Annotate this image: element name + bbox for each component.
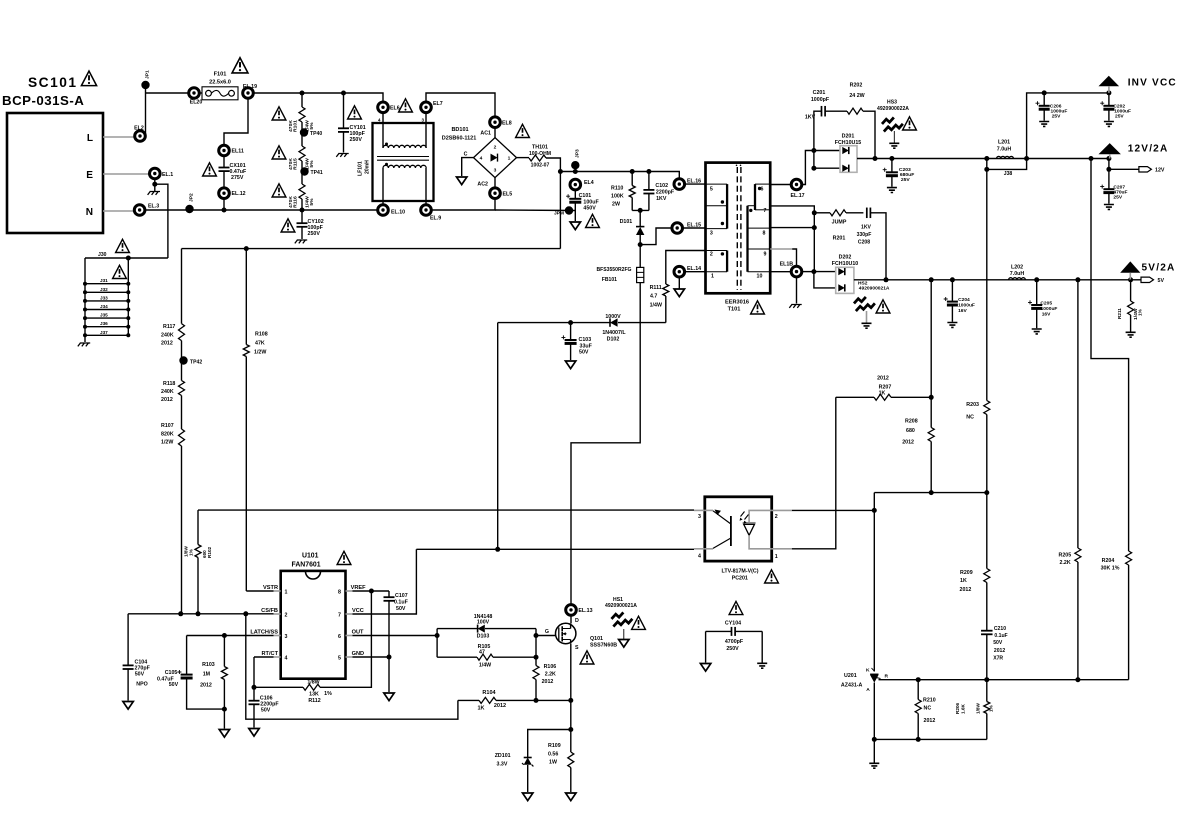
output arrow 5V/2A <box>1120 261 1140 272</box>
svg-text:BCP-031S-A: BCP-031S-A <box>2 93 84 108</box>
warning symbol Q101 <box>580 651 594 664</box>
PC201 phototransistor <box>705 509 713 511</box>
svg-text:C: C <box>464 152 468 158</box>
svg-text:10: 10 <box>757 274 763 280</box>
capacitor C101 <box>574 190 576 199</box>
svg-text:2012: 2012 <box>902 440 914 446</box>
transformer T101 EER3016 body <box>706 163 771 294</box>
svg-text:1/4W: 1/4W <box>479 663 491 669</box>
IC U101 FAN7601 body <box>281 571 346 679</box>
warning symbol CY101 <box>348 106 362 119</box>
svg-text:1%: 1% <box>324 691 332 697</box>
svg-text:OUT: OUT <box>352 630 364 636</box>
svg-text:K: K <box>866 668 870 674</box>
svg-text:5%: 5% <box>309 160 315 168</box>
svg-text:4920900021A: 4920900021A <box>605 603 637 609</box>
svg-text:D101: D101 <box>620 219 633 225</box>
warning symbol PC201 <box>765 570 779 583</box>
ground CY104 left <box>705 631 707 662</box>
wire PC201 pin3 to R102 <box>198 509 694 511</box>
terminal EL15 <box>672 223 683 234</box>
svg-text:EL.17: EL.17 <box>791 193 805 199</box>
terminal EL12 <box>219 188 230 199</box>
svg-text:J37: J37 <box>100 330 108 335</box>
wire U201 reference bus <box>879 679 1129 681</box>
svg-text:CY104: CY104 <box>725 621 741 627</box>
svg-text:24 2W: 24 2W <box>849 93 864 99</box>
wire D201 output <box>857 158 875 160</box>
svg-text:3: 3 <box>698 514 701 520</box>
svg-text:EL2: EL2 <box>134 126 144 132</box>
capacitor C103 <box>570 323 572 340</box>
svg-text:X7R: X7R <box>993 656 1003 662</box>
svg-text:820K: 820K <box>161 432 174 438</box>
svg-text:R108: R108 <box>255 332 268 338</box>
svg-text:680: 680 <box>906 428 915 434</box>
jumper J35 <box>85 317 128 319</box>
svg-text:100K: 100K <box>611 194 624 200</box>
svg-text:FCH10U15: FCH10U15 <box>835 140 862 146</box>
svg-text:HS3: HS3 <box>887 100 897 106</box>
svg-text:22.5x6.0: 22.5x6.0 <box>209 80 231 86</box>
svg-text:FAN7601: FAN7601 <box>292 562 321 569</box>
svg-text:JUMP: JUMP <box>832 220 847 226</box>
svg-text:R209: R209 <box>960 570 973 576</box>
wire D101 to EL15 <box>640 228 672 245</box>
svg-text:0.56: 0.56 <box>548 752 558 758</box>
resistor R211 <box>1130 280 1132 301</box>
wire VREF net <box>353 590 390 592</box>
test point TP40 <box>301 122 303 146</box>
svg-text:VCC: VCC <box>352 608 364 614</box>
svg-text:100V: 100V <box>477 620 490 626</box>
svg-text:EL.3: EL.3 <box>148 204 159 210</box>
jumper J38 <box>987 159 1027 170</box>
resistor R209 <box>986 493 988 569</box>
wire pin6 to EL17 <box>770 184 791 186</box>
svg-text:JP1: JP1 <box>145 70 151 79</box>
wire aux winding to D102 <box>666 251 706 285</box>
svg-text:100-OHM: 100-OHM <box>529 151 551 157</box>
svg-text:TP41: TP41 <box>311 170 323 176</box>
resistor R112 <box>254 686 303 688</box>
svg-text:1%: 1% <box>189 548 194 556</box>
heatsink HS2 <box>854 297 875 311</box>
warning symbol U101 <box>337 551 351 564</box>
svg-text:1KV: 1KV <box>861 225 871 231</box>
wire 12V rail <box>875 158 1109 160</box>
capacitor C104 <box>127 614 129 666</box>
svg-text:250V: 250V <box>726 646 739 652</box>
svg-text:C103: C103 <box>579 337 592 343</box>
wire 12V to R203 column <box>986 169 988 400</box>
svg-text:2012: 2012 <box>542 679 554 685</box>
svg-text:JP3: JP3 <box>575 149 581 158</box>
svg-text:4.7: 4.7 <box>650 294 657 300</box>
jumper rails J31-J37 <box>84 258 86 335</box>
wire E to EL1 (gray) <box>103 173 150 175</box>
svg-text:C205: C205 <box>1040 301 1052 307</box>
svg-text:EL.9: EL.9 <box>430 216 441 222</box>
warning symbol CY104 <box>729 601 743 614</box>
resistor R118 <box>179 381 185 396</box>
resistor R103 <box>223 636 225 667</box>
svg-text:J34: J34 <box>100 304 108 309</box>
svg-text:T101: T101 <box>728 307 741 313</box>
wire HV bus <box>182 248 561 250</box>
svg-text:EL6: EL6 <box>390 106 400 112</box>
ferrite bead FB101 <box>639 245 641 268</box>
wire pin9 to EL18 (gray) <box>770 248 792 250</box>
svg-text:240K: 240K <box>161 389 174 395</box>
warning symbol EL6 <box>399 99 413 112</box>
transformer primary winding 5-3 <box>726 184 728 229</box>
svg-text:2: 2 <box>285 613 288 619</box>
line filter LF101 body <box>373 123 434 201</box>
wire EL14 to pin1 <box>684 271 705 273</box>
capacitor CY101 <box>343 93 345 128</box>
warning symbol CX101 <box>203 163 217 176</box>
terminal EL13 <box>570 615 572 623</box>
wire GND net <box>353 656 390 658</box>
svg-text:D201: D201 <box>842 134 855 140</box>
resistor R102 <box>197 510 199 544</box>
svg-text:330pF: 330pF <box>857 232 872 238</box>
wire PC201 pin2 to U201 K <box>792 509 874 511</box>
svg-text:2.2K: 2.2K <box>545 672 556 678</box>
diode D103 <box>437 628 478 630</box>
svg-text:2012: 2012 <box>200 683 212 689</box>
svg-text:1KV: 1KV <box>656 196 667 202</box>
wire EL15 to pin3 <box>682 227 705 229</box>
diode D201 FCH10U15 <box>840 146 857 173</box>
svg-text:R106: R106 <box>544 664 557 670</box>
svg-text:3: 3 <box>285 634 288 640</box>
ground below R109 <box>566 793 576 801</box>
svg-text:470K: 470K <box>288 158 294 170</box>
svg-text:5V/2A: 5V/2A <box>1142 263 1176 274</box>
svg-text:25V: 25V <box>1115 114 1124 120</box>
svg-text:INV VCC: INV VCC <box>1128 78 1177 89</box>
chassis ground below EL1 <box>154 184 156 191</box>
ground below R103 <box>219 730 229 738</box>
svg-text:7: 7 <box>338 613 341 619</box>
resistor R116 <box>299 184 305 199</box>
svg-text:R117: R117 <box>163 324 175 330</box>
svg-text:2012: 2012 <box>161 397 173 403</box>
svg-text:3.3V: 3.3V <box>497 762 508 768</box>
svg-text:R208: R208 <box>905 419 918 425</box>
svg-text:ZD101: ZD101 <box>495 753 511 759</box>
svg-text:1: 1 <box>508 156 511 162</box>
svg-text:2: 2 <box>775 514 778 520</box>
svg-text:R206: R206 <box>955 702 960 714</box>
svg-text:D102: D102 <box>607 337 620 343</box>
svg-text:250V: 250V <box>308 231 321 237</box>
resistor R107 <box>181 396 183 430</box>
wire 5V to R207/R208 column <box>930 280 932 398</box>
LF101 bottom winding <box>382 168 384 205</box>
wire EL8 to AC1 <box>494 127 496 137</box>
svg-text:4920900022A: 4920900022A <box>877 106 909 112</box>
svg-text:50V: 50V <box>396 606 406 612</box>
svg-text:R112: R112 <box>308 698 320 704</box>
connector plug 5V <box>1141 277 1154 282</box>
svg-text:8: 8 <box>763 231 766 237</box>
svg-text:RT/CT: RT/CT <box>261 651 278 657</box>
svg-text:1000V: 1000V <box>605 314 621 320</box>
capacitor C202 <box>1108 93 1110 106</box>
svg-text:R103: R103 <box>202 662 215 668</box>
svg-text:L: L <box>87 133 93 144</box>
resistor R207 <box>836 396 874 398</box>
jumper JP3 <box>571 161 579 169</box>
wire opto anode bus <box>874 492 987 494</box>
svg-text:R107: R107 <box>161 423 174 429</box>
transformer secondary winding 8-9-10 <box>746 206 748 272</box>
terminal EL3 <box>134 205 145 216</box>
svg-text:EL8: EL8 <box>502 121 512 127</box>
wire N bus <box>145 209 378 211</box>
wire PC201 pin1 to R207 <box>792 397 836 549</box>
ground below C103 <box>565 361 575 369</box>
svg-text:TP42: TP42 <box>190 360 202 366</box>
svg-text:3: 3 <box>422 118 425 123</box>
svg-text:EL11: EL11 <box>232 149 244 155</box>
svg-text:7.0uH: 7.0uH <box>997 147 1012 153</box>
svg-text:EL.19: EL.19 <box>243 84 257 90</box>
capacitor C204 <box>951 280 953 302</box>
svg-text:1N4007/L: 1N4007/L <box>602 330 626 336</box>
capacitor C102 <box>648 172 650 190</box>
svg-text:EL.13: EL.13 <box>578 608 592 614</box>
svg-text:1K: 1K <box>477 706 484 712</box>
svg-text:450V: 450V <box>583 206 596 212</box>
svg-text:1/8W: 1/8W <box>976 703 981 714</box>
warning symbol R101 <box>272 107 286 120</box>
svg-text:470K: 470K <box>288 120 294 132</box>
wire EL16 to pin5 <box>684 183 705 185</box>
wire FB101 to drain jog <box>571 283 640 605</box>
svg-text:2: 2 <box>494 145 497 151</box>
diode D102 1N4007/L <box>618 322 666 324</box>
warning symbol J31 <box>113 265 127 278</box>
diode D101 <box>639 210 641 227</box>
svg-text:R118: R118 <box>163 381 175 387</box>
wire N to EL3 (gray) <box>103 210 134 212</box>
svg-text:LATCH/SS: LATCH/SS <box>250 630 278 636</box>
resistor R109 <box>570 730 572 753</box>
svg-text:1: 1 <box>285 590 288 596</box>
wire U201 anode <box>873 683 875 740</box>
svg-text:C102: C102 <box>655 183 668 189</box>
svg-text:5: 5 <box>338 656 341 662</box>
connector SC101 body <box>7 113 103 233</box>
terminal EL14 <box>674 266 685 277</box>
svg-text:AC1: AC1 <box>480 131 491 137</box>
svg-text:4: 4 <box>698 554 701 560</box>
svg-text:R205: R205 <box>1059 553 1072 559</box>
wire R110/C102 bottom <box>632 209 649 211</box>
resistor R208 <box>930 397 932 427</box>
warning symbol F101 <box>232 58 248 73</box>
svg-text:1: 1 <box>711 274 714 280</box>
svg-text:R201: R201 <box>833 236 846 242</box>
svg-text:1W: 1W <box>549 760 557 766</box>
ground below C106 <box>249 729 259 737</box>
terminal EL17 <box>791 179 802 190</box>
svg-text:2: 2 <box>710 252 713 258</box>
svg-text:50V: 50V <box>261 708 271 714</box>
svg-text:J30: J30 <box>98 252 107 258</box>
terminal EL6 <box>378 102 389 113</box>
PC201 LED <box>749 510 772 522</box>
svg-text:D2SB60-1121: D2SB60-1121 <box>442 136 477 142</box>
svg-text:1%: 1% <box>989 704 994 712</box>
svg-text:SSS7N60B: SSS7N60B <box>590 643 617 649</box>
svg-text:5%: 5% <box>309 198 315 206</box>
terminal EL11 <box>219 145 230 156</box>
svg-text:13K: 13K <box>309 692 319 698</box>
wire EL7 to bridge top <box>426 93 495 117</box>
svg-text:1000pF: 1000pF <box>811 97 830 103</box>
U101 pin stubs gray <box>274 590 281 592</box>
svg-text:J38: J38 <box>1004 171 1013 177</box>
svg-text:R110: R110 <box>611 186 623 192</box>
svg-text:J31: J31 <box>100 278 108 283</box>
svg-text:7: 7 <box>764 208 767 214</box>
capacitor CY102 <box>301 210 303 223</box>
svg-text:JPM: JPM <box>554 211 564 217</box>
svg-text:2012: 2012 <box>877 376 889 382</box>
jumper J31 <box>85 283 128 285</box>
svg-text:4700pF: 4700pF <box>725 639 744 645</box>
LF101 top winding <box>382 112 384 148</box>
wire Q101 source <box>570 644 572 730</box>
wire pin10 to EL18 <box>770 271 791 273</box>
svg-text:EL5: EL5 <box>503 192 513 198</box>
svg-text:AC2: AC2 <box>477 182 488 188</box>
resistor R204 <box>1091 159 1129 552</box>
jumper J36 <box>85 326 128 328</box>
resistor R111 <box>663 284 669 296</box>
svg-text:C201: C201 <box>813 90 826 96</box>
jumper JP1 <box>141 81 149 89</box>
wire VCC net <box>353 549 417 614</box>
capacitor C201 snubber <box>814 111 822 150</box>
svg-text:U101: U101 <box>302 553 319 560</box>
connector plug 12V <box>1139 167 1152 172</box>
svg-text:N: N <box>86 207 93 218</box>
capacitor C206 <box>1043 93 1045 106</box>
wire pin8 to D202 node <box>770 227 814 229</box>
svg-text:C101: C101 <box>579 193 592 199</box>
svg-text:R202: R202 <box>850 83 863 89</box>
wire 5V plug line <box>1131 279 1141 281</box>
svg-text:PC201: PC201 <box>732 576 748 582</box>
jumper J33 <box>85 300 128 302</box>
capacitor C105 <box>186 636 188 675</box>
svg-text:1%: 1% <box>1138 308 1143 316</box>
resistor R117 <box>181 249 183 324</box>
svg-text:AZ431-A: AZ431-A <box>841 683 863 689</box>
svg-text:470K: 470K <box>288 196 294 208</box>
svg-text:LTV-817M-V(C): LTV-817M-V(C) <box>722 569 759 575</box>
ground below J37 <box>84 335 86 342</box>
capacitor C106 <box>253 687 255 700</box>
ground below C104 <box>123 702 133 710</box>
capacitor CX101 <box>223 156 225 168</box>
ground below C107 <box>384 693 394 701</box>
wire EL20 to F101 <box>199 92 202 94</box>
wire D202 output 5V rail <box>854 279 1131 281</box>
jumper J37 <box>85 334 128 336</box>
svg-text:2012: 2012 <box>161 341 173 347</box>
svg-text:4: 4 <box>480 156 483 162</box>
svg-text:1000uF: 1000uF <box>958 303 975 309</box>
svg-text:D: D <box>575 618 579 624</box>
svg-text:EL.1: EL.1 <box>162 172 173 178</box>
jumper JP2 <box>185 205 193 213</box>
capacitor C205 <box>1036 280 1038 305</box>
wire 12V plug line <box>1108 159 1110 170</box>
ground CY104 right <box>761 631 763 662</box>
svg-text:FCH10U10: FCH10U10 <box>832 261 859 267</box>
svg-text:J36: J36 <box>100 321 108 326</box>
wire EL19 to LF101 EL6 <box>253 93 383 102</box>
resistor R201 JUMP <box>814 212 830 214</box>
svg-text:2012: 2012 <box>994 648 1005 654</box>
svg-text:D103: D103 <box>477 634 490 640</box>
svg-text:0.1uF: 0.1uF <box>994 633 1007 639</box>
svg-text:S: S <box>575 645 579 651</box>
svg-text:R210: R210 <box>923 698 936 704</box>
terminal EL20 <box>189 88 200 99</box>
wire aux to VCC bus <box>497 323 499 550</box>
svg-text:C105: C105 <box>165 670 178 676</box>
svg-text:EL4: EL4 <box>584 180 594 186</box>
svg-text:NC: NC <box>966 415 974 421</box>
transformer core <box>737 167 741 290</box>
svg-text:50V: 50V <box>169 682 179 688</box>
warning symbol J30 <box>116 239 130 252</box>
capacitor C208 <box>866 208 868 219</box>
svg-text:2012: 2012 <box>924 718 936 724</box>
svg-text:3: 3 <box>710 231 713 237</box>
terminal EL10 <box>378 205 389 216</box>
svg-text:7.0uH: 7.0uH <box>1010 271 1025 277</box>
svg-text:A: A <box>866 687 870 693</box>
capacitor C210 <box>981 630 993 632</box>
svg-text:4920900021A: 4920900021A <box>859 286 890 292</box>
svg-text:EL.12: EL.12 <box>232 191 246 197</box>
wire RT/CT net <box>254 656 274 658</box>
svg-text:EER3016: EER3016 <box>725 300 749 306</box>
svg-text:BFS3550R2FG: BFS3550R2FG <box>597 267 632 273</box>
svg-text:12V/2A: 12V/2A <box>1128 144 1169 155</box>
svg-text:1K: 1K <box>960 578 967 584</box>
wire EL9 to EL5 <box>431 199 495 211</box>
svg-text:30K 1%: 30K 1% <box>1101 566 1120 572</box>
svg-text:C107: C107 <box>395 593 408 599</box>
svg-text:L201: L201 <box>998 140 1010 146</box>
resistor R105 <box>437 656 477 658</box>
svg-text:8: 8 <box>338 590 341 596</box>
svg-text:5%: 5% <box>309 122 315 130</box>
svg-text:C210: C210 <box>994 626 1006 632</box>
svg-text:J33: J33 <box>100 295 108 300</box>
svg-text:EL20: EL20 <box>190 100 203 106</box>
